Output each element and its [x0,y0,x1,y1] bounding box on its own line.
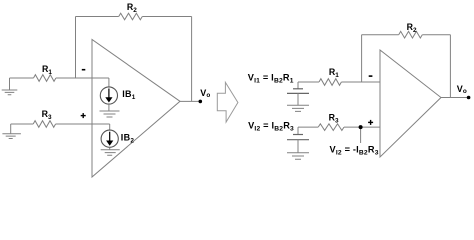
ground (left of R3, left circuit) [2,124,21,139]
wire (feedback right vertical to output) [191,17,193,102]
current source IB2 [101,124,118,147]
svg-text:R3: R3 [42,109,52,121]
resistor R3 (left circuit) [33,121,55,128]
ground (under battery VI2) [287,153,309,159]
svg-text:R1: R1 [329,67,339,79]
wire (op-amp output to Vo, right circuit) [441,97,469,99]
svg-text:VI2 = IB2R3: VI2 = IB2R3 [248,120,294,132]
block arrow (left to right) [217,82,238,122]
minus sign (right op-amp inverting input) [369,75,373,77]
ground (under IB1) [100,104,120,117]
svg-text:IB2: IB2 [121,132,135,144]
wire (VI1 source to R1, right circuit) [298,81,319,83]
wire (R3 to non-inverting input, right circuit) [344,126,380,128]
wire (R3 to non-inverting input / IB2 node) [56,123,110,125]
node (R3 / non-inverting junction, right circuit) [359,125,363,129]
svg-text:R2: R2 [127,2,137,14]
svg-text:R3: R3 [329,113,339,125]
svg-text:R1: R1 [42,64,52,76]
current source IB1 [100,78,117,104]
wire (R1 to inverting input, right circuit) [341,81,380,83]
node Vo (left circuit) [199,100,203,104]
wire (ground to R1) [10,77,34,79]
op-amp U1 (left circuit) [92,40,180,178]
plus sign (right op-amp non-inverting input) [368,120,373,125]
resistor R3 (right circuit) [318,124,344,131]
ground (under IB2) [101,147,120,155]
svg-text:VI2 = -IB2R3: VI2 = -IB2R3 [330,144,379,156]
resistor R1 (left circuit) [34,75,56,82]
svg-text:Vo: Vo [457,84,467,95]
wire (leader from node to VI2 label) [360,127,362,143]
op-amp U2 (right circuit) [380,50,441,157]
node Vo (right circuit) [467,96,471,100]
wire (feedback top right segment) [142,16,191,18]
resistor R2 (right circuit) [399,31,423,38]
wire (feedback top right segment, right circuit) [422,34,450,36]
wire (feedback left vertical, right circuit) [361,35,363,82]
ground (left of R1, left circuit) [2,78,18,95]
resistor R1 (right circuit) [319,79,341,86]
wire (feedback top left segment) [76,16,119,18]
battery VI2 (right circuit) [287,127,309,153]
wire (op-amp output to Vo) [180,100,200,102]
wire (feedback left vertical) [75,17,77,79]
resistor R2 (left circuit) [119,13,143,20]
battery VI1 (right circuit) [287,82,309,105]
plus sign (left op-amp non-inverting input) [81,113,86,118]
wire (ground to R3) [11,123,34,125]
wire (feedback top left segment, right circuit) [362,34,399,36]
wire (VI2 source to R3, right circuit) [298,126,318,128]
wire (feedback right vertical, right circuit) [449,35,451,98]
svg-text:IB1: IB1 [122,89,136,101]
ground (under battery VI1) [287,105,309,111]
minus sign (left op-amp inverting input) [82,69,86,71]
svg-text:VI1 = IB2R1: VI1 = IB2R1 [248,73,294,85]
svg-text:Vo: Vo [200,88,210,99]
wire (R1 to inverting input / IB1 node) [56,77,109,79]
